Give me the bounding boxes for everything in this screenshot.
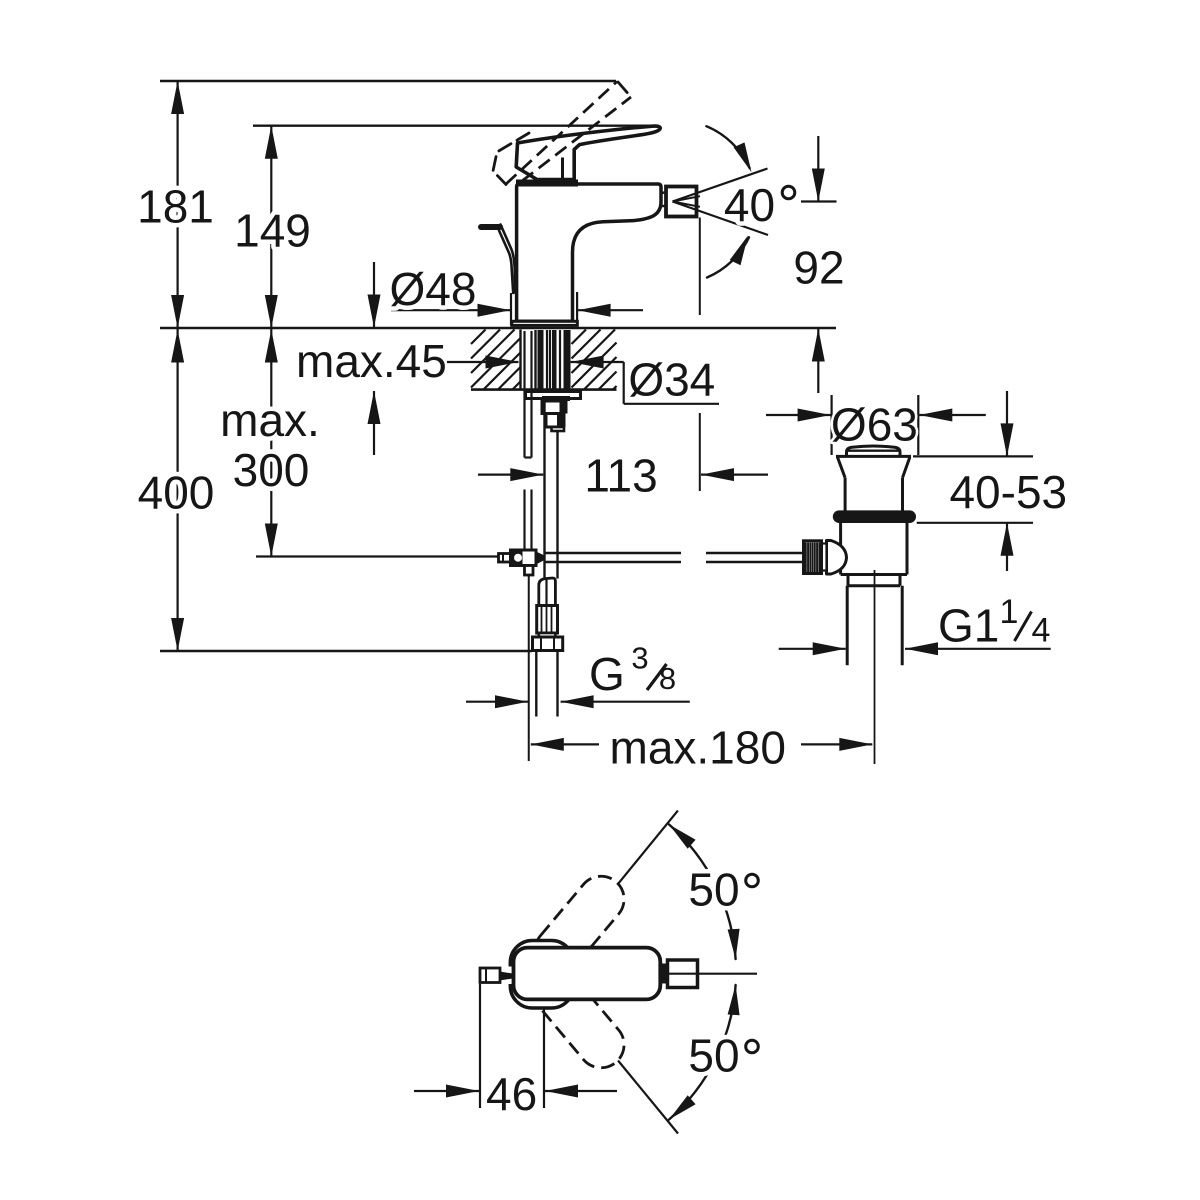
svg-text:max.45: max.45: [296, 335, 447, 387]
svg-text:181: 181: [137, 180, 214, 232]
svg-text:300: 300: [233, 444, 310, 496]
svg-text:40-53: 40-53: [949, 466, 1067, 518]
svg-text:max.180: max.180: [610, 722, 786, 774]
svg-text:50: 50: [688, 864, 739, 916]
svg-text:Ø34: Ø34: [628, 354, 715, 406]
svg-text:113: 113: [584, 450, 657, 502]
svg-text:4: 4: [1032, 612, 1051, 650]
svg-text:3: 3: [631, 640, 648, 675]
svg-text:Ø48: Ø48: [390, 263, 477, 315]
svg-text:1: 1: [1000, 593, 1019, 631]
svg-text:149: 149: [234, 204, 311, 256]
svg-text:max.: max.: [220, 394, 320, 446]
svg-text:46: 46: [486, 1068, 537, 1120]
svg-text:400: 400: [138, 467, 215, 519]
svg-text:Ø63: Ø63: [831, 399, 918, 451]
svg-text:8: 8: [659, 661, 676, 696]
svg-text:92: 92: [793, 242, 844, 294]
svg-text:50: 50: [688, 1030, 739, 1082]
svg-text:40: 40: [724, 179, 775, 231]
svg-text:G: G: [589, 648, 625, 700]
svg-text:G1: G1: [938, 599, 999, 651]
